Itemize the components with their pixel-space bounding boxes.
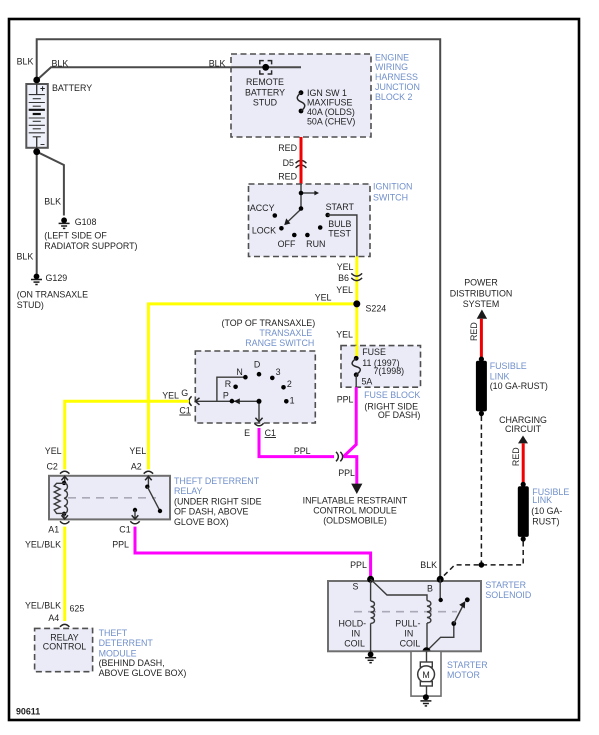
svg-text:RELAY: RELAY	[174, 486, 203, 496]
svg-text:DETERRENT: DETERRENT	[99, 638, 154, 648]
svg-text:YEL: YEL	[337, 262, 354, 272]
svg-text:PPL: PPL	[337, 395, 354, 405]
svg-text:IGNITION: IGNITION	[373, 182, 412, 192]
svg-text:SWITCH: SWITCH	[373, 192, 408, 202]
svg-text:RED: RED	[278, 171, 297, 181]
svg-text:TRANSAXLE: TRANSAXLE	[259, 328, 312, 338]
svg-text:A1: A1	[48, 524, 59, 534]
svg-text:C1: C1	[179, 406, 190, 416]
svg-text:HOLD-: HOLD-	[339, 619, 367, 629]
svg-text:STARTER: STARTER	[447, 660, 488, 670]
svg-text:YEL: YEL	[315, 293, 332, 303]
svg-text:DISTRIBUTION: DISTRIBUTION	[450, 288, 513, 298]
svg-text:A2: A2	[131, 462, 142, 472]
svg-text:1: 1	[290, 395, 295, 405]
svg-text:50A (CHEV): 50A (CHEV)	[307, 117, 355, 127]
svg-text:BLK: BLK	[44, 196, 61, 206]
svg-text:2: 2	[287, 379, 292, 389]
svg-text:(BEHIND DASH,: (BEHIND DASH,	[99, 658, 165, 668]
svg-text:BLK: BLK	[17, 57, 34, 67]
svg-text:90611: 90611	[16, 707, 40, 717]
svg-text:D5: D5	[283, 158, 294, 168]
svg-text:G108: G108	[75, 217, 97, 227]
svg-text:625: 625	[70, 603, 85, 613]
svg-text:G129: G129	[46, 273, 68, 283]
svg-text:BATTERY: BATTERY	[52, 83, 92, 93]
svg-text:FUSE: FUSE	[362, 347, 386, 357]
svg-text:S224: S224	[366, 304, 387, 314]
svg-text:JUNCTION: JUNCTION	[375, 82, 420, 92]
svg-text:(UNDER RIGHT SIDE: (UNDER RIGHT SIDE	[174, 496, 262, 506]
svg-text:STUD): STUD)	[17, 300, 44, 310]
svg-text:5A: 5A	[362, 377, 373, 387]
svg-text:C2: C2	[47, 462, 58, 472]
svg-text:R: R	[225, 379, 231, 389]
svg-text:LOCK: LOCK	[252, 226, 276, 236]
svg-text:E: E	[244, 428, 250, 438]
svg-text:ABOVE GLOVE BOX): ABOVE GLOVE BOX)	[99, 668, 187, 678]
svg-text:INFLATABLE RESTRAINT: INFLATABLE RESTRAINT	[303, 496, 408, 506]
svg-text:TEST: TEST	[328, 229, 351, 239]
svg-text:3: 3	[276, 367, 281, 377]
svg-text:N: N	[236, 367, 242, 377]
svg-text:BLK: BLK	[17, 251, 34, 261]
svg-text:M: M	[422, 670, 429, 680]
svg-text:(ON TRANSAXLE: (ON TRANSAXLE	[17, 290, 88, 300]
svg-text:LINK: LINK	[490, 371, 510, 381]
svg-text:START: START	[326, 202, 355, 212]
svg-text:GLOVE BOX): GLOVE BOX)	[174, 517, 229, 527]
svg-text:OFF: OFF	[278, 239, 296, 249]
svg-text:IN: IN	[404, 629, 413, 639]
svg-text:COIL: COIL	[344, 639, 365, 649]
svg-text:SOLENOID: SOLENOID	[485, 590, 531, 600]
svg-text:THEFT: THEFT	[99, 628, 128, 638]
svg-text:(10 GA-RUST): (10 GA-RUST)	[490, 381, 548, 391]
svg-text:PPL: PPL	[350, 560, 367, 570]
svg-text:OF DASH): OF DASH)	[378, 410, 420, 420]
svg-text:RED: RED	[511, 447, 521, 466]
svg-text:CONTROL: CONTROL	[43, 642, 86, 652]
svg-text:PPL: PPL	[112, 540, 129, 550]
svg-text:YEL: YEL	[45, 446, 62, 456]
svg-text:(10 GA-: (10 GA-	[531, 506, 562, 516]
svg-text:YEL: YEL	[162, 391, 179, 401]
svg-text:YEL: YEL	[336, 285, 353, 295]
svg-text:RUN: RUN	[306, 239, 325, 249]
svg-text:C1: C1	[119, 524, 130, 534]
svg-text:C1: C1	[265, 428, 276, 438]
svg-text:B6: B6	[338, 273, 349, 283]
svg-text:HARNESS: HARNESS	[375, 72, 418, 82]
svg-text:S: S	[352, 582, 358, 592]
svg-text:CIRCUIT: CIRCUIT	[505, 424, 542, 434]
svg-text:BATTERY: BATTERY	[245, 87, 285, 97]
svg-text:THEFT DETERRENT: THEFT DETERRENT	[174, 476, 260, 486]
svg-text:STUD: STUD	[253, 98, 277, 108]
svg-text:WIRING: WIRING	[375, 62, 408, 72]
svg-text:7(1998): 7(1998)	[374, 366, 405, 376]
svg-text:(TOP OF TRANSAXLE): (TOP OF TRANSAXLE)	[221, 318, 315, 328]
svg-text:+: +	[40, 83, 45, 93]
svg-text:B: B	[427, 584, 433, 594]
svg-text:(LEFT SIDE OF: (LEFT SIDE OF	[44, 231, 107, 241]
svg-text:40A (OLDS): 40A (OLDS)	[307, 107, 355, 117]
svg-text:RUST): RUST)	[532, 517, 559, 527]
svg-text:COIL: COIL	[400, 639, 421, 649]
svg-text:BLK: BLK	[209, 59, 226, 69]
svg-text:BLK: BLK	[420, 560, 437, 570]
svg-text:FUSIBLE: FUSIBLE	[490, 361, 527, 371]
svg-text:RANGE SWITCH: RANGE SWITCH	[245, 338, 314, 348]
svg-text:PPL: PPL	[294, 446, 311, 456]
svg-text:ENGINE: ENGINE	[375, 52, 409, 62]
svg-text:BLOCK 2: BLOCK 2	[375, 92, 413, 102]
svg-text:D: D	[254, 359, 260, 369]
svg-text:OF DASH, ABOVE: OF DASH, ABOVE	[174, 507, 249, 517]
svg-text:PULL-: PULL-	[395, 619, 420, 629]
svg-text:YEL: YEL	[129, 446, 146, 456]
svg-text:MAXIFUSE: MAXIFUSE	[307, 97, 352, 107]
svg-text:MOTOR: MOTOR	[447, 670, 480, 680]
svg-text:REMOTE: REMOTE	[246, 77, 284, 87]
svg-text:MODULE: MODULE	[99, 648, 137, 658]
svg-text:(OLDSMOBILE): (OLDSMOBILE)	[323, 516, 387, 526]
svg-text:PPL: PPL	[338, 468, 355, 478]
svg-text:RED: RED	[469, 322, 479, 341]
svg-text:RADIATOR SUPPORT): RADIATOR SUPPORT)	[44, 241, 137, 251]
svg-text:ACCY: ACCY	[250, 203, 275, 213]
svg-text:POWER: POWER	[464, 278, 498, 288]
svg-text:YEL: YEL	[336, 330, 353, 340]
svg-text:A4: A4	[48, 613, 59, 623]
svg-text:LINK: LINK	[532, 495, 552, 505]
svg-text:CONTROL MODULE: CONTROL MODULE	[313, 506, 397, 516]
svg-text:RED: RED	[278, 143, 297, 153]
svg-text:STARTER: STARTER	[485, 580, 526, 590]
svg-text:YEL/BLK: YEL/BLK	[25, 540, 61, 550]
svg-text:G: G	[181, 388, 188, 398]
svg-text:BLK: BLK	[52, 58, 69, 68]
svg-text:FUSE BLOCK: FUSE BLOCK	[364, 390, 420, 400]
svg-text:P: P	[223, 391, 229, 401]
svg-text:IN: IN	[351, 629, 360, 639]
svg-text:SYSTEM: SYSTEM	[463, 299, 500, 309]
svg-text:YEL/BLK: YEL/BLK	[25, 600, 61, 610]
